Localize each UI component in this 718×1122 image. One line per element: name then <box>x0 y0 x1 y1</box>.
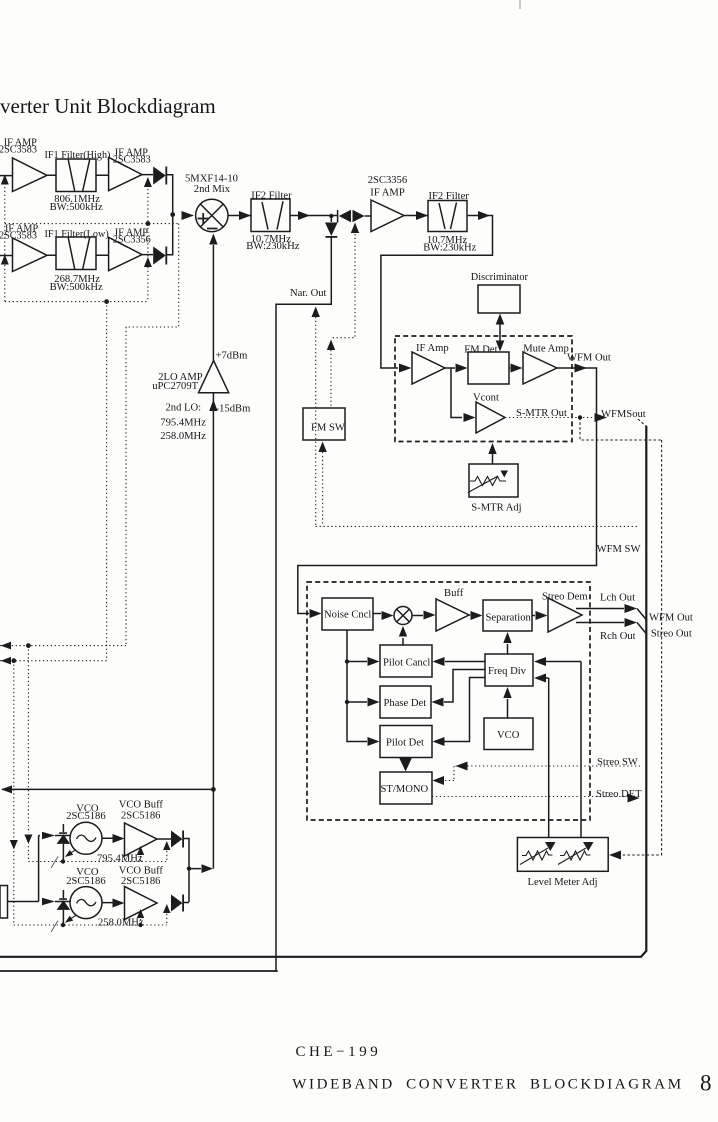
svg-text:795.4MHz: 795.4MHz <box>97 854 143 865</box>
svg-text:Converter Unit Blockdiagram: Converter Unit Blockdiagram <box>0 94 216 118</box>
svg-text:VCO Buff: VCO Buff <box>119 866 164 877</box>
svg-text:Phase Det: Phase Det <box>384 698 427 709</box>
svg-text:2SC5186: 2SC5186 <box>121 876 160 887</box>
svg-text:WFMSout: WFMSout <box>601 409 646 420</box>
svg-text:WFM SW: WFM SW <box>597 544 641 555</box>
svg-text:2nd Mix: 2nd Mix <box>194 184 231 195</box>
svg-text:VCO: VCO <box>497 730 520 741</box>
svg-text:2SC3356: 2SC3356 <box>113 235 151 246</box>
svg-text:2SC3583: 2SC3583 <box>113 155 151 166</box>
svg-text:+7dBm: +7dBm <box>216 351 249 362</box>
svg-text:Noise Cncl: Noise Cncl <box>324 610 371 621</box>
svg-text:IF AMP: IF AMP <box>370 188 405 199</box>
svg-text:Separation: Separation <box>486 612 532 623</box>
svg-text:795.4MHz: 795.4MHz <box>160 418 206 429</box>
svg-text:-15dBm: -15dBm <box>216 404 251 415</box>
svg-text:IF1 Filter(Low): IF1 Filter(Low) <box>45 229 109 240</box>
svg-text:ST/MONO: ST/MONO <box>381 784 429 795</box>
svg-text:CHE−199: CHE−199 <box>296 1044 382 1060</box>
svg-text:2SC5186: 2SC5186 <box>121 811 160 822</box>
svg-text:Nar. Out: Nar. Out <box>290 288 327 299</box>
svg-text:BW:230kHz: BW:230kHz <box>423 242 476 253</box>
svg-text:IF2 Filter: IF2 Filter <box>429 191 470 202</box>
svg-text:BW:230kHz: BW:230kHz <box>246 241 299 252</box>
svg-text:Streo DET: Streo DET <box>596 789 642 800</box>
svg-text:Lch Out: Lch Out <box>600 593 635 604</box>
svg-text:BW:500kHz: BW:500kHz <box>50 202 103 213</box>
svg-text:2SC3356: 2SC3356 <box>368 175 407 186</box>
svg-text:uPC2709T: uPC2709T <box>152 381 198 392</box>
svg-text:IF Amp: IF Amp <box>416 343 449 354</box>
svg-text:8: 8 <box>700 1071 712 1096</box>
svg-text:2SC5186: 2SC5186 <box>66 876 105 887</box>
svg-text:FM SW: FM SW <box>311 423 345 434</box>
svg-text:WFM Out: WFM Out <box>567 352 611 363</box>
svg-text:Freq Div: Freq Div <box>488 666 527 677</box>
svg-text:Level Meter Adj: Level Meter Adj <box>528 877 598 888</box>
svg-text:S-MTR Out: S-MTR Out <box>516 408 567 419</box>
svg-text:Buff: Buff <box>444 588 464 599</box>
svg-text:IF2 Filter: IF2 Filter <box>251 190 292 201</box>
svg-text:BW:500kHz: BW:500kHz <box>50 282 103 293</box>
svg-text:S-MTR Adj: S-MTR Adj <box>471 502 521 513</box>
svg-text:Rch Out: Rch Out <box>600 631 636 642</box>
svg-text:258.0MHz: 258.0MHz <box>98 918 144 929</box>
svg-text:FM Det: FM Det <box>464 345 497 356</box>
svg-text:WIDEBAND CONVERTER BLOCKDIAGRA: WIDEBAND CONVERTER BLOCKDIAGRAM <box>292 1077 683 1093</box>
svg-text:Vcont: Vcont <box>473 392 499 403</box>
svg-text:5MXF14-10: 5MXF14-10 <box>185 174 238 185</box>
svg-text:Mute Amp: Mute Amp <box>523 344 569 355</box>
svg-text:2SC3583: 2SC3583 <box>0 231 37 242</box>
svg-text:2SC5186: 2SC5186 <box>66 811 105 822</box>
svg-text:Streo SW: Streo SW <box>597 757 638 768</box>
svg-text:Pilot Det: Pilot Det <box>386 738 424 749</box>
svg-text:VCO Buff: VCO Buff <box>119 800 164 811</box>
svg-text:2nd LO:: 2nd LO: <box>166 403 202 414</box>
svg-text:IF1 Filter(High): IF1 Filter(High) <box>45 150 111 161</box>
svg-text:Discriminator: Discriminator <box>471 272 529 283</box>
svg-text:Streo Out: Streo Out <box>651 629 692 640</box>
svg-text:Pilot Cancl: Pilot Cancl <box>383 658 430 669</box>
svg-text:Streo Dem: Streo Dem <box>542 592 588 603</box>
svg-text:2SC3583: 2SC3583 <box>0 145 37 156</box>
svg-text:258.0MHz: 258.0MHz <box>160 431 206 442</box>
svg-text:WFM Out: WFM Out <box>649 613 693 624</box>
